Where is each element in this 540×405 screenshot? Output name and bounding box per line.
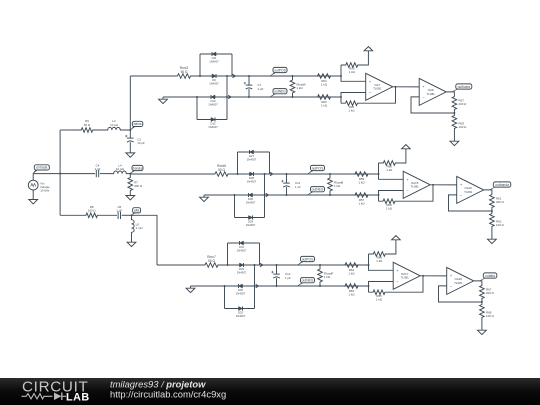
svg-text:2 mH: 2 mH [136, 226, 143, 230]
svg-text:1N4007: 1N4007 [247, 157, 257, 161]
wire top clipper right vertical [231, 54, 233, 76]
inductor L8 [132, 215, 135, 234]
junction load top [329, 173, 331, 175]
wire top clipper right vertical [259, 243, 261, 265]
resistor R57 [330, 193, 379, 198]
svg-text:http://circuitlab.com/cr4c9xg: http://circuitlab.com/cr4c9xg [110, 388, 226, 399]
diode D30 [235, 194, 265, 196]
wire op-amp output [420, 275, 447, 277]
svg-text:LAB: LAB [66, 391, 90, 403]
resistor R05 feedback [340, 97, 342, 103]
wire outNEG rail [265, 194, 379, 196]
flag baixa [130, 125, 137, 130]
svg-text:1 µF: 1 µF [258, 87, 264, 91]
svg-text:outbaixa: outbaixa [458, 85, 471, 89]
svg-text:1N4007: 1N4007 [247, 179, 257, 183]
resistor Rord6 [215, 172, 238, 177]
ground divider [450, 139, 459, 146]
wire outPOS rail [265, 173, 379, 175]
svg-text:banda: banda [133, 166, 142, 170]
wire lower clipper right vertical up to signal rail [226, 76, 228, 120]
resistor RloadF [318, 265, 323, 286]
svg-text:50 Ω: 50 Ω [208, 259, 215, 263]
wire top clipper left vertical [237, 152, 239, 174]
junction load top [292, 75, 294, 77]
diode D9 [200, 75, 232, 77]
wire lower clipper left vertical [196, 97, 198, 120]
wire op-amp 2 output [474, 281, 482, 284]
junction non-inverting node [378, 173, 380, 175]
wire-end marker [266, 193, 269, 196]
wire input to resistor Rorc7 [157, 264, 205, 266]
svg-text:D30: D30 [238, 288, 243, 292]
wire L8 to ground [131, 235, 133, 241]
svg-text:1 kΩ: 1 kΩ [348, 292, 355, 296]
diode D11 [212, 52, 216, 56]
junction clipper output top [254, 264, 256, 266]
wire after C8 [122, 214, 132, 216]
svg-text:1 kΩ: 1 kΩ [321, 82, 328, 86]
junction load bottom [329, 194, 331, 196]
junction lower pair left [234, 194, 236, 196]
wire feedback to output [362, 87, 396, 103]
flag outPOS [298, 260, 306, 265]
wire ground rail [191, 285, 225, 287]
wire to op-amp + input [379, 174, 404, 179]
wire-end marker [233, 74, 236, 77]
svg-text:D11: D11 [212, 56, 217, 60]
svg-text:outNEG: outNEG [302, 279, 314, 283]
junction load bottom [319, 285, 321, 287]
resistor Rload8 [328, 174, 333, 195]
svg-text:1 kΩ: 1 kΩ [348, 108, 355, 112]
svg-text:1 kΩ: 1 kΩ [348, 271, 355, 275]
power flag [364, 47, 373, 51]
wire op-amp 2 output [446, 92, 454, 95]
wire input to resistor Rord6 [130, 173, 215, 175]
op-amp OA16 [457, 176, 484, 203]
wire divider feedback [449, 195, 492, 211]
svg-text:1 kΩ: 1 kΩ [297, 86, 304, 90]
svg-text:D28: D28 [249, 176, 254, 180]
ground L8 [127, 240, 136, 247]
svg-text:D29: D29 [239, 267, 244, 271]
wire lower clipper left vertical [234, 195, 236, 218]
resistor R68 [480, 302, 485, 320]
wire lower clipper right vertical up to signal rail [254, 265, 256, 309]
wire outNEG rail [227, 96, 341, 98]
svg-text:TL081: TL081 [464, 190, 473, 194]
diode D32 [239, 307, 243, 311]
flag outPOS [308, 169, 316, 174]
wire after C4 [100, 173, 107, 175]
svg-text:50 Ω: 50 Ω [218, 168, 225, 172]
ground R7 [126, 193, 135, 200]
resistor R06 pull-up [340, 65, 342, 76]
wire entrada to bus [33, 173, 60, 175]
wire outPOS rail [255, 264, 369, 266]
logo diode [54, 393, 62, 401]
resistor R60 pull-up [378, 163, 380, 174]
flag entrada [33, 169, 40, 174]
flag outbanda [490, 186, 499, 190]
source V1 Vin [32, 174, 34, 181]
wire outNEG rail [255, 285, 369, 287]
wire to op-amp + input [341, 76, 366, 81]
svg-text:D30: D30 [248, 197, 253, 201]
junction load top [319, 264, 321, 266]
wire source to ground [32, 190, 34, 197]
ground [159, 97, 168, 104]
diode D28 [238, 173, 270, 175]
junction cap bottom [248, 96, 250, 98]
svg-text:50 Ω: 50 Ω [181, 70, 188, 74]
junction clipper output top [264, 173, 266, 175]
svg-text:50 Ω: 50 Ω [84, 123, 91, 127]
wire lower clipper right vertical up to signal rail [264, 174, 266, 218]
wire divider feedback [411, 97, 454, 113]
ground source [29, 197, 38, 204]
inductor L2 [101, 127, 130, 130]
junction op-amp 1 output [432, 184, 434, 186]
power flag [392, 236, 401, 240]
svg-text:200 Ω: 200 Ω [486, 291, 495, 295]
junction baixa [129, 129, 131, 131]
flag outPOS [270, 71, 278, 76]
svg-text:1N4007: 1N4007 [237, 248, 247, 252]
wire bottom row [60, 214, 85, 216]
capacitor C7 [248, 76, 250, 85]
ground C2 [126, 151, 135, 158]
wire top clipper left vertical [199, 54, 201, 76]
junction top pair left [237, 173, 239, 175]
svg-text:1 kΩ: 1 kΩ [376, 297, 383, 301]
svg-text:D31: D31 [239, 245, 244, 249]
svg-text:outPOS: outPOS [274, 68, 286, 72]
svg-text:1 kΩ: 1 kΩ [334, 184, 341, 188]
svg-text:1 kΩ: 1 kΩ [324, 275, 331, 279]
ground [186, 286, 195, 293]
junction top pair left [227, 264, 229, 266]
svg-text:outNEG: outNEG [312, 188, 324, 192]
svg-text:1 kΩ: 1 kΩ [386, 206, 393, 210]
junction lower pair left [196, 96, 198, 98]
wire-end marker [260, 263, 263, 266]
flag banda [130, 169, 137, 174]
svg-text:D9: D9 [212, 78, 216, 82]
op-amp OA17 [393, 262, 420, 289]
svg-text:200 Ω: 200 Ω [496, 200, 505, 204]
svg-text:1 kΩ: 1 kΩ [349, 70, 356, 74]
svg-text:outbanda: outbanda [495, 183, 509, 187]
resistor R64 [320, 263, 369, 268]
svg-text:1 µF: 1 µF [95, 167, 101, 171]
svg-text:1 kΩ: 1 kΩ [376, 259, 383, 263]
capacitor C8 [118, 212, 120, 219]
junction clipper output bottom [254, 285, 256, 287]
junction clipper output bottom [226, 96, 228, 98]
flag outNEG [270, 92, 278, 97]
wire input bus vertical [59, 130, 61, 215]
capacitor C11 [286, 174, 288, 183]
wire feedback to output [390, 276, 424, 292]
resistor R66 pull-up [368, 254, 370, 265]
power flag [402, 145, 411, 149]
wire op-amp output [393, 86, 420, 88]
wire outPOS rail [227, 75, 341, 77]
svg-text:D29: D29 [248, 219, 253, 223]
wire lower clipper branch [235, 217, 265, 219]
junction load bottom [292, 96, 294, 98]
svg-text:400 Ω: 400 Ω [134, 184, 143, 188]
svg-text:1N4007: 1N4007 [208, 125, 218, 129]
logo resistor zigzag [22, 394, 53, 399]
svg-text:1N4007: 1N4007 [209, 81, 219, 85]
ground divider [488, 237, 497, 244]
ground [200, 195, 209, 202]
junction cap bottom [286, 194, 288, 196]
resistor R63 [320, 284, 369, 289]
svg-text:1N4007: 1N4007 [246, 200, 256, 204]
svg-text:1N4007: 1N4007 [237, 270, 247, 274]
wire to op-amp - input [379, 191, 404, 196]
resistor R04 [293, 74, 342, 79]
wire lower clipper left vertical [224, 286, 226, 309]
junction non-inverting node [368, 264, 370, 266]
resistor R58 feedback [378, 195, 380, 201]
svg-text:1N4007: 1N4007 [209, 59, 219, 63]
wire top clipper branch [238, 151, 270, 153]
svg-text:1 kΩ: 1 kΩ [386, 168, 393, 172]
wire-end marker [256, 284, 259, 287]
svg-text:TL081: TL081 [373, 87, 382, 91]
svg-text:100 Ω: 100 Ω [88, 209, 97, 213]
flag outNEG [308, 190, 316, 195]
svg-text:100 Ω: 100 Ω [486, 314, 495, 318]
wire alta to channel 3 [132, 215, 158, 265]
svg-text:1N4007: 1N4007 [236, 314, 246, 318]
junction cap top [286, 173, 288, 175]
wire-end marker [228, 95, 231, 98]
op-amp OA8 [419, 78, 446, 105]
op-amp OA18 [447, 267, 474, 294]
svg-text:100 Ω: 100 Ω [459, 125, 468, 129]
wire to op-amp - input [341, 93, 366, 98]
junction input bus [59, 173, 61, 175]
svg-text:TL081: TL081 [454, 281, 463, 285]
svg-text:TL081: TL081 [401, 276, 410, 280]
svg-text:1 kΩ: 1 kΩ [358, 180, 365, 184]
junction clipper output top [226, 75, 228, 77]
svg-text:outPOS: outPOS [312, 166, 324, 170]
svg-text:10 kHz: 10 kHz [40, 189, 50, 193]
svg-text:1N4007: 1N4007 [246, 223, 256, 227]
junction divider [481, 301, 483, 303]
svg-text:200 Ω: 200 Ω [459, 102, 468, 106]
svg-text:100 Ω: 100 Ω [496, 223, 505, 227]
svg-text:10 µH: 10 µH [110, 123, 118, 127]
resistor R00 [293, 95, 342, 100]
junction divider [453, 112, 455, 114]
wire top row [60, 129, 74, 131]
svg-text:1N4007: 1N4007 [208, 102, 218, 106]
svg-text:baixa: baixa [134, 122, 142, 126]
svg-text:TL081: TL081 [427, 92, 436, 96]
junction top pair left [199, 75, 201, 77]
svg-text:outPOS: outPOS [302, 257, 314, 261]
wire top clipper branch [228, 242, 260, 244]
svg-text:1 kΩ: 1 kΩ [321, 103, 328, 107]
resistor Rorc2 [178, 74, 201, 79]
svg-text:1 µF: 1 µF [116, 209, 122, 213]
diode D29 [228, 264, 260, 266]
junction cap top [276, 264, 278, 266]
junction lower pair left [224, 285, 226, 287]
capacitor C4 [96, 170, 98, 177]
wire feedback to output [400, 185, 434, 201]
capacitor C2 [129, 130, 131, 138]
svg-text:alta: alta [134, 209, 139, 213]
wire to op-amp + input [369, 265, 394, 270]
wire ground rail [204, 194, 235, 196]
wire op-amp 2 output [484, 190, 492, 193]
junction inverting node [340, 96, 342, 98]
resistor R62 [490, 211, 495, 229]
junction cap top [248, 75, 250, 77]
inductor L4 [107, 171, 130, 174]
svg-text:entrada: entrada [36, 166, 47, 170]
junction banda [129, 173, 131, 175]
wire top clipper left vertical [227, 243, 229, 265]
wire lower clipper branch [225, 308, 255, 310]
resistor R61 [490, 193, 495, 211]
diode D31 [240, 241, 244, 245]
svg-text:10 µF: 10 µF [137, 141, 145, 145]
junction divider [491, 210, 493, 212]
resistor R8 [86, 213, 118, 218]
svg-text:1N4007: 1N4007 [236, 291, 246, 295]
svg-text:outNEG: outNEG [274, 90, 286, 94]
diode D12 [211, 118, 215, 122]
flag outbaixa [452, 88, 461, 92]
svg-text:TL081: TL081 [411, 185, 420, 189]
wire op-amp output [430, 184, 457, 186]
op-amp OA7 [366, 73, 393, 100]
svg-text:outalta: outalta [485, 274, 495, 278]
wire input to resistor Rorc2 [130, 75, 177, 77]
svg-text:1 nF: 1 nF [295, 185, 301, 189]
junction non-inverting node [340, 75, 342, 77]
wire divider feedback [439, 286, 482, 302]
junction cap bottom [276, 285, 278, 287]
wire top clipper branch [200, 53, 232, 55]
svg-text:D32: D32 [238, 310, 243, 314]
wire middle row [60, 173, 95, 175]
resistor Rorc7 [205, 263, 228, 268]
svg-text:10 mH: 10 mH [116, 167, 125, 171]
op-amp OA15 [403, 171, 430, 198]
flag outNEG [298, 281, 306, 286]
diode D10 [197, 96, 227, 98]
svg-text:D10: D10 [211, 99, 216, 103]
flag outalta [480, 277, 489, 281]
capacitor C12 [276, 265, 278, 274]
wire lower clipper branch [197, 119, 227, 121]
resistor R67 [480, 284, 485, 302]
junction op-amp 1 output [422, 275, 424, 277]
resistor R08 [452, 113, 457, 131]
resistor Rload6 [290, 76, 295, 97]
junction op-amp 1 output [395, 86, 397, 88]
resistor R7 [128, 174, 133, 194]
flag alta [132, 211, 138, 215]
resistor R07 [452, 95, 457, 113]
ground divider [478, 328, 487, 335]
svg-text:1 µF: 1 µF [285, 276, 291, 280]
diode D30 [225, 285, 255, 287]
diode D29 [249, 216, 253, 220]
resistor R9 [74, 128, 101, 133]
wire-end marker [270, 172, 273, 175]
svg-text:1 kΩ: 1 kΩ [358, 201, 365, 205]
junction inverting node [378, 194, 380, 196]
resistor R65 feedback [368, 286, 370, 292]
svg-text:D12: D12 [211, 121, 216, 125]
wire baixa up to channel 1 [129, 76, 131, 130]
wire top clipper right vertical [269, 152, 271, 174]
junction inverting node [368, 285, 370, 287]
diode D27 [250, 150, 254, 154]
wire to op-amp - input [369, 282, 394, 287]
wire ground rail [163, 96, 197, 98]
junction alta [131, 214, 133, 216]
junction clipper output bottom [264, 194, 266, 196]
resistor R59 [330, 172, 379, 177]
svg-text:D27: D27 [249, 154, 254, 158]
